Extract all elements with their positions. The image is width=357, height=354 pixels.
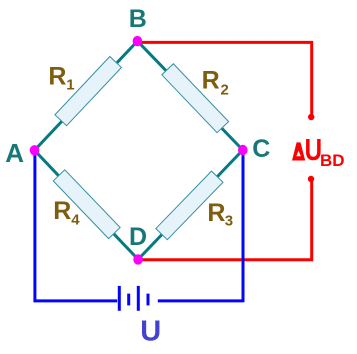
red probe dot upper <box>308 114 314 120</box>
wire D-A <box>35 150 139 259</box>
node B <box>129 5 147 46</box>
svg-text:R: R <box>53 197 71 225</box>
svg-text:BD: BD <box>320 151 345 170</box>
svg-text:3: 3 <box>225 213 233 230</box>
node A <box>5 138 39 168</box>
resistor R3 <box>156 171 233 240</box>
svg-text:C: C <box>252 135 270 163</box>
svg-text:A: A <box>5 138 24 168</box>
svg-text:2: 2 <box>221 82 229 99</box>
red wire from node D to lower probe <box>141 179 312 260</box>
red probe dot lower <box>308 176 314 182</box>
wire A-B <box>35 41 138 150</box>
svg-text:4: 4 <box>71 212 80 229</box>
blue wire from battery right to node C <box>158 150 243 302</box>
battery cell plate short 2 <box>147 294 150 306</box>
resistor R1 <box>48 57 121 126</box>
svg-text:1: 1 <box>66 77 74 94</box>
node C <box>238 135 270 163</box>
battery cell plate long 2 <box>137 286 140 311</box>
svg-text:D: D <box>129 223 147 251</box>
label dU_BD <box>292 132 345 170</box>
svg-text:R: R <box>207 199 225 227</box>
svg-text:B: B <box>129 5 147 33</box>
svg-text:R: R <box>202 66 220 94</box>
red wire from node B to upper probe <box>140 42 312 117</box>
node D <box>129 223 147 265</box>
battery cell plate short 1 <box>127 294 130 306</box>
resistor R4 <box>53 170 120 239</box>
wire B-C <box>137 41 242 150</box>
svg-text:R: R <box>48 63 66 91</box>
svg-text:U: U <box>140 315 161 347</box>
battery cell plate long 1 <box>118 286 121 311</box>
wire C-D <box>138 150 243 259</box>
blue wire from node A down and along bottom to battery <box>33 150 117 301</box>
resistor R2 <box>162 64 229 133</box>
